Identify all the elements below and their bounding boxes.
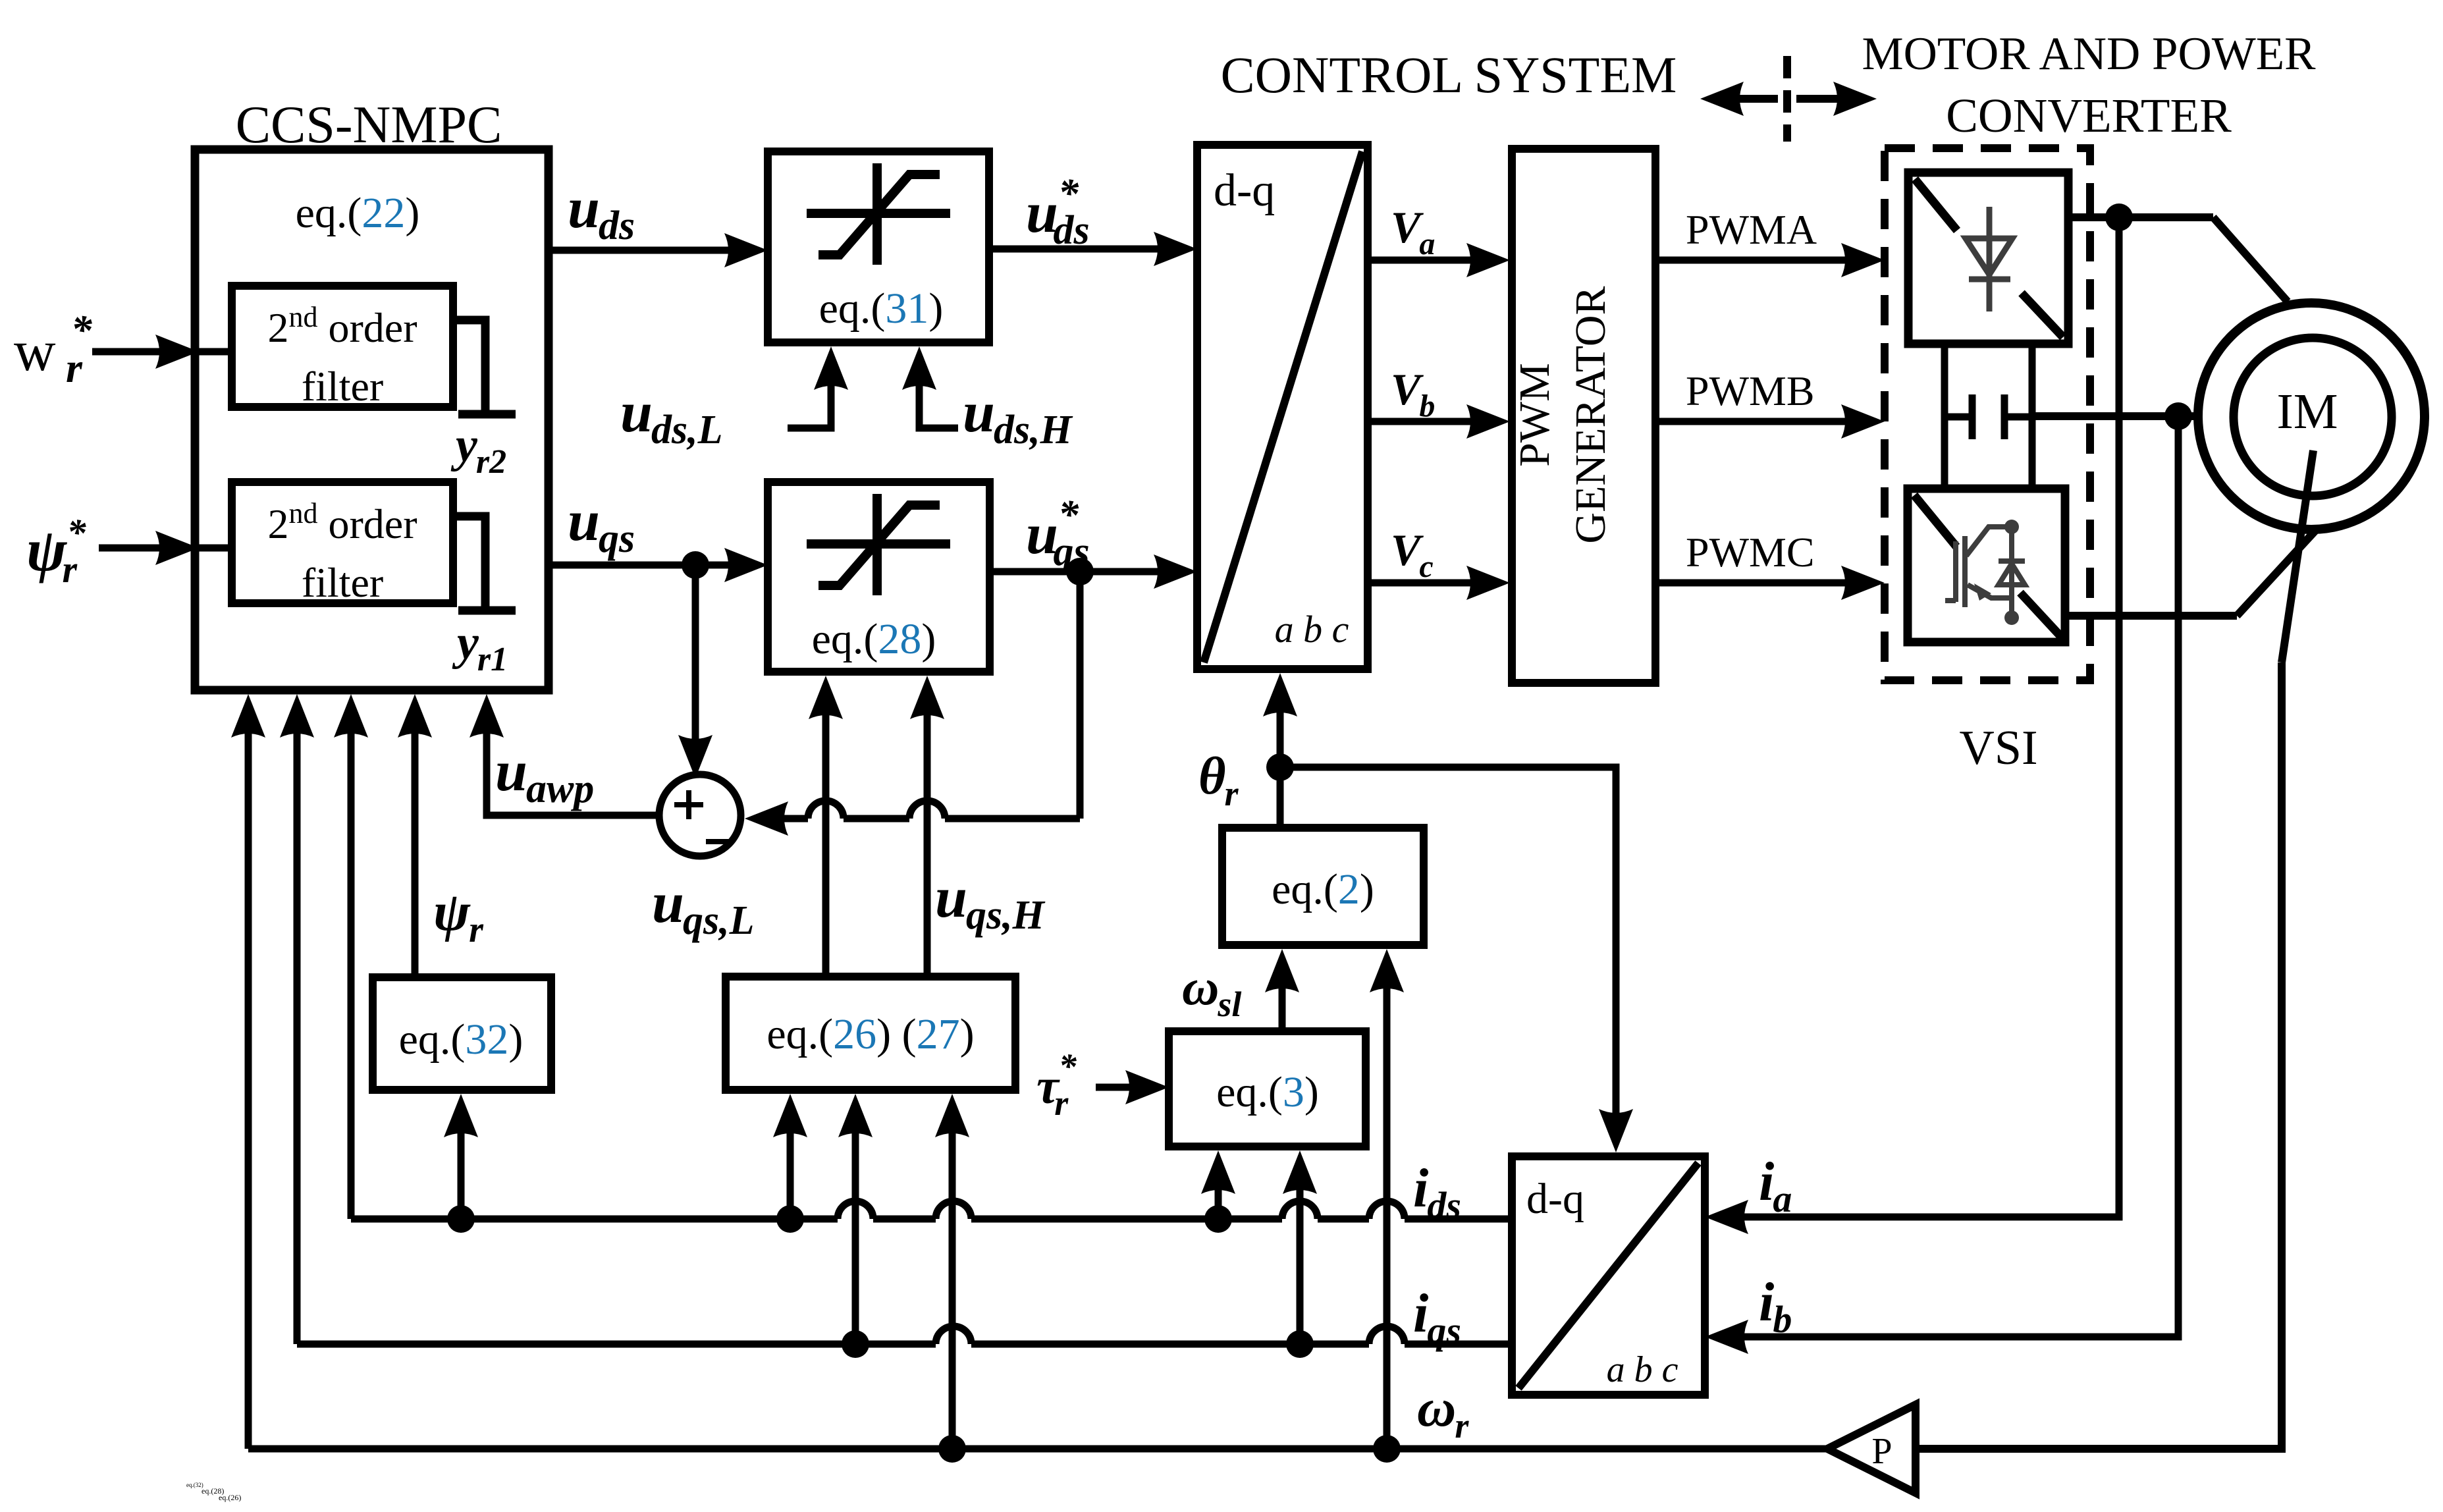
divider dashed line <box>1783 56 1791 142</box>
svg-text:eq.(26) (27): eq.(26) (27) <box>766 1010 974 1058</box>
wire phase C <box>2065 612 2237 620</box>
svg-text:eq.(28): eq.(28) <box>812 615 936 663</box>
motor IM outer circle <box>2198 303 2425 529</box>
junction i_ds to eq32 <box>447 1205 475 1233</box>
wire phase A <box>2068 213 2213 221</box>
block d-q to abc box <box>1197 145 1368 669</box>
block top IGBT module box <box>1908 173 2068 344</box>
junction u_qs* <box>1066 558 1094 585</box>
wire psi_r from eq32 to CCS <box>412 727 419 977</box>
plus sign in sum <box>674 790 703 819</box>
svg-text:IM: IM <box>2277 384 2338 439</box>
minus sign in sum <box>706 839 730 844</box>
capacitor plates <box>1972 394 2004 439</box>
svg-text:PWMC: PWMC <box>1686 529 1815 576</box>
junction i_qs to eq3 <box>1286 1330 1314 1358</box>
tiny artifact text <box>186 1482 241 1502</box>
wire u_ds,H lead <box>919 379 958 428</box>
saturation glyph eq28 <box>807 494 950 595</box>
svg-text:d-q: d-q <box>1214 165 1275 216</box>
wire V_a <box>1368 257 1473 264</box>
corner mark bottom-right (top module) <box>2022 293 2063 337</box>
svg-text:a b c: a b c <box>1607 1349 1678 1390</box>
svg-text:a b c: a b c <box>1275 608 1349 651</box>
svg-text:filter: filter <box>302 559 383 606</box>
wire u_qs* down-left to sum minus <box>1077 572 1084 819</box>
svg-text:w: w <box>14 319 56 383</box>
svg-text:PWM: PWM <box>1511 363 1559 467</box>
diagonal in d-q box <box>1204 151 1362 662</box>
junction phase B <box>2164 402 2192 430</box>
svg-text:eq.(32): eq.(32) <box>399 1015 523 1064</box>
block 2nd order filter (lower) <box>232 482 453 603</box>
svg-text:filter: filter <box>302 363 383 410</box>
motor IM inner circle <box>2234 338 2392 496</box>
divider right arrow <box>1796 95 1842 103</box>
block eq.(32) box <box>373 977 551 1090</box>
wire u_qs,L vertical <box>822 709 830 977</box>
svg-text:P: P <box>1871 1431 1892 1472</box>
divider left arrow <box>1732 95 1778 103</box>
wire i_qs to eq26-27 input <box>852 1127 859 1344</box>
wire u_ds* to d-q <box>989 246 1160 253</box>
wire DC link left leg <box>1941 344 1948 489</box>
svg-text:eq.(32): eq.(32) <box>186 1482 203 1488</box>
IGBT terminal dots <box>2004 520 2019 534</box>
wire i_a vertical and into d-q <box>1742 217 2119 1217</box>
saturation glyph eq31 <box>807 163 950 265</box>
wire eq2 to theta_r node <box>1277 767 1284 828</box>
svg-text:PWMA: PWMA <box>1686 206 1817 253</box>
svg-text:eq.(22): eq.(22) <box>296 189 420 237</box>
wire tau_r* into eq3 <box>1096 1084 1132 1091</box>
block VSI dashed box <box>1885 148 2090 680</box>
svg-text:eq.(2): eq.(2) <box>1272 865 1374 913</box>
svg-text:d-q: d-q <box>1526 1175 1584 1223</box>
wire theta_r up to d-q <box>1277 706 1284 767</box>
wire eq3 input from i_ds <box>1215 1183 1222 1219</box>
svg-text:CONTROL SYSTEM: CONTROL SYSTEM <box>1221 46 1677 103</box>
wire i_ds feedback <box>351 1216 838 1223</box>
diode symbol (top module) <box>1966 207 2012 311</box>
step glyph yr2 <box>453 320 516 414</box>
wire V_b <box>1368 418 1473 425</box>
junction i_ds to eq3 <box>1204 1205 1232 1233</box>
block eq.(31) saturation box <box>768 151 989 342</box>
sum junction circle <box>659 774 741 856</box>
corner mark top-left (bottom module) <box>1914 495 1956 547</box>
svg-text:eq.(3): eq.(3) <box>1216 1068 1319 1116</box>
block abc to d-q box <box>1512 1156 1705 1395</box>
block bottom IGBT module box <box>1908 489 2065 642</box>
corner mark top-left (top module) <box>1915 179 1957 230</box>
wire DC link right leg <box>2029 344 2036 489</box>
junction omega_r to eq26-27 <box>938 1435 966 1463</box>
junction omega_r to eq2 <box>1373 1435 1401 1463</box>
wire omega_sl eq3 to eq2 <box>1279 982 1286 1031</box>
svg-text:MOTOR AND POWER: MOTOR AND POWER <box>1862 28 2316 80</box>
svg-text:GENERATOR: GENERATOR <box>1567 286 1615 543</box>
wire u_qs* to d-q <box>990 568 1160 576</box>
wire eq32 input from i_ds <box>458 1127 465 1219</box>
wire psi_r* arrow <box>99 545 165 552</box>
block eq.(28) saturation box <box>768 482 990 672</box>
wire omega_r feedback <box>248 1445 1827 1453</box>
wire i_ds to eq26-27 input <box>787 1127 794 1219</box>
wire omega_r up to eq2 <box>1383 982 1391 1449</box>
speed sensor P triangle <box>1827 1405 1916 1493</box>
wire u_qs,H vertical <box>924 709 931 977</box>
wire u_ds,L lead <box>788 379 831 428</box>
wire theta_r to bottom d-q <box>1280 767 1616 1120</box>
block eq.(3) box <box>1169 1031 1366 1147</box>
junction u_qs <box>682 551 709 579</box>
block CCS-NMPC box <box>195 149 549 690</box>
svg-text:CONVERTER: CONVERTER <box>1946 89 2232 142</box>
wire u_ds <box>549 247 731 254</box>
svg-text:PWMB: PWMB <box>1686 367 1815 414</box>
wire i_b vertical and into d-q <box>1742 416 2178 1337</box>
IGBT symbol (bottom module) <box>1945 527 2025 618</box>
block eq.(26)(27) box <box>726 977 1015 1090</box>
junction theta_r <box>1266 753 1294 781</box>
capacitor connectors <box>1945 414 1972 421</box>
wire V_c <box>1368 580 1473 587</box>
wire PWMB <box>1657 418 1848 425</box>
wire w_r* arrow <box>92 348 165 356</box>
svg-text:CCS-NMPC: CCS-NMPC <box>236 96 502 154</box>
wire omega_r to eq26-27 input <box>949 1127 956 1449</box>
block PWM GENERATOR box <box>1512 149 1655 683</box>
step glyph yr1 <box>453 516 516 610</box>
shaft line <box>2282 450 2313 662</box>
wire u_qs with junction <box>549 562 731 569</box>
svg-text:eq.(26): eq.(26) <box>219 1493 241 1502</box>
block 2nd order filter (upper) <box>232 286 453 407</box>
wire eq3 input from i_qs <box>1297 1183 1304 1344</box>
block eq.(2) box <box>1222 828 1424 945</box>
wire u_awp from sum to CCS <box>487 724 659 815</box>
wire shaft vertical to P <box>1916 662 2282 1449</box>
svg-text:VSI: VSI <box>1959 721 2037 775</box>
diagonal in abc-dq box <box>1518 1163 1698 1388</box>
junction i_ds to eq26-27 <box>776 1205 804 1233</box>
svg-text:eq.(31): eq.(31) <box>819 284 944 333</box>
wire PWMA <box>1657 257 1848 264</box>
wire PWMC <box>1657 580 1848 587</box>
junction phase A <box>2105 203 2133 231</box>
wire phase B <box>2032 412 2199 420</box>
corner mark bottom-right (bottom module) <box>2020 593 2062 637</box>
wire i_qs feedback <box>297 1341 936 1348</box>
wire u_qs down to sum <box>692 565 699 744</box>
junction i_qs to eq26-27 <box>842 1330 869 1358</box>
